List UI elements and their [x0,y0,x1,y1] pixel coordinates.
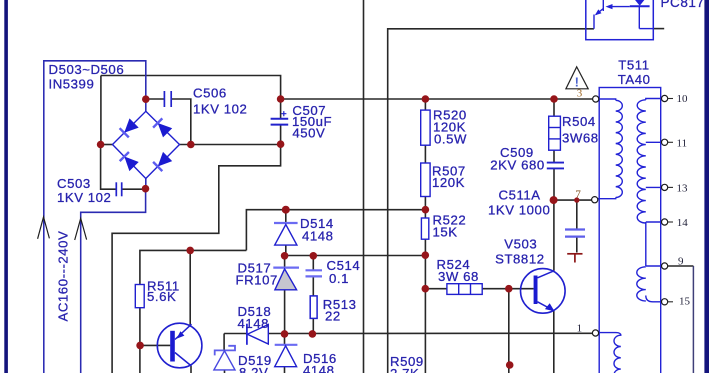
wire D517 top lead [284,256,286,268]
pin 9 circle [662,263,668,269]
C511A red end mark [567,254,582,263]
label D503~D506 IN5399 [49,62,125,92]
svg-text:4148: 4148 [302,228,334,243]
wire D519 bottom lead [224,370,226,373]
wire C507 bottom lead [280,125,282,144]
pin stubs right [668,99,673,302]
junction Q1 emitter node [186,247,194,255]
wire R504 top lead [553,99,555,116]
svg-text:V503: V503 [504,236,537,251]
wire node to T511 pin7 [554,199,592,201]
label R507 120K [432,163,466,190]
wire D516 bottom lead [284,367,286,373]
transistor V503 [521,269,566,314]
resistor R520 [421,110,430,145]
wire R524 right lead to V503 base [482,288,533,290]
wire PC817 LED output stub [653,28,664,30]
transistor Q1 [157,323,202,368]
wire R524 left lead [425,288,447,290]
label D516 4148 [303,351,337,373]
svg-text:3W68: 3W68 [562,131,599,146]
wire R522 bottom vertical to bottom edge [424,239,426,373]
label R509 2.7K [390,354,424,373]
bridge diode top-right [153,118,172,137]
svg-text:1KV 1000: 1KV 1000 [488,203,550,218]
wire V503 collector vertical [553,200,555,271]
svg-text:C503: C503 [57,176,91,191]
wire long vertical V1 [363,0,365,373]
svg-text:2KV 680: 2KV 680 [490,157,544,172]
WIRES-BLUE [44,61,146,373]
wire C507 top lead [280,99,282,119]
label R522 15K [433,212,467,239]
resistor R504 3-cell vertical [549,116,561,150]
resistor R522 [421,218,428,239]
svg-text:TA40: TA40 [618,72,651,87]
wire C509 bottom lead [553,169,555,201]
T511 winding 9-15 [637,266,662,302]
PC817 phototransistor [594,0,630,29]
svg-text:PC817: PC817 [661,0,705,10]
T511 link 14 to 9 [645,222,647,266]
wire R520-R507 link [424,145,426,163]
resistor R507 [421,163,430,197]
label C511A 1KV 1000 [488,187,550,217]
junction D516 top [281,330,289,338]
pin 3 circle T511 primary top [593,96,599,102]
wire R511 bottom to bottom edge [139,308,141,373]
optocoupler PC817 box [586,0,654,40]
svg-text:D503~D506: D503~D506 [49,62,125,77]
label T511 TA40 [618,58,651,87]
wire V503 emitter vertical to bottom edge [553,310,555,373]
label D514 4148 [300,216,334,244]
wire step from C507 bottom down-left to bottom edge [112,144,281,373]
PC817 LED [630,0,654,29]
pin 13 circle [662,184,668,190]
capacitor C509 [547,163,564,169]
diode D516 [275,345,298,367]
svg-text:0.1: 0.1 [329,271,349,286]
svg-text:1: 1 [577,322,583,334]
wire Q1 collector to bottom edge [190,366,192,373]
capacitor C507 electrolytic [271,111,289,125]
label C514 0.1 [327,258,361,286]
right border bar [704,0,709,373]
junction R520 top [422,95,430,103]
junction R524 left [422,285,430,293]
svg-text:3: 3 [577,88,583,100]
junction bottom node V4 [506,361,514,369]
svg-text:AC160---240V: AC160---240V [56,231,71,322]
svg-text:5.6K: 5.6K [147,289,176,304]
svg-text:2.7K: 2.7K [390,366,419,373]
capacitor C511A [565,230,585,237]
wire AC right leg to bridge bottom vertex [81,189,146,373]
wire C511A bottom lead [576,237,578,253]
T511 primary winding top [598,99,623,199]
wire C503 to bridge bottom vertex [122,188,146,190]
wire C506 right lead to bridge right vertex [171,99,191,145]
wire long vertical V2 to PC817 [388,29,594,373]
wire R513 bottom lead [312,318,314,333]
wire D514 bottom lead [285,245,287,255]
diode D517 FR107 [273,268,299,290]
label R513 22 [323,297,357,324]
resistor R511 [135,285,144,308]
svg-text:4148: 4148 [303,363,335,373]
AC arrowhead right [75,218,87,240]
wire Q1 emitter vertical [189,250,191,325]
wire AC leg to bridge left vertex [100,76,102,145]
svg-text:8.2V: 8.2V [239,365,268,373]
svg-text:14: 14 [677,217,689,229]
wire bottom rail left part to D518 [224,333,247,335]
junction C509-V503 node [550,196,558,204]
junction R513 bottom [309,330,317,338]
capacitor C506 [164,91,171,107]
wire main HV rail y=99 [281,98,593,100]
resistor R513 [310,296,317,319]
svg-text:T511: T511 [618,58,649,73]
wire top rail from bridge to C507 [101,76,281,100]
junction D514-D517 node [281,252,289,260]
warning triangle 3 [566,67,588,100]
wire pin9 to right and down [668,265,694,267]
svg-text:3W 68: 3W 68 [438,269,479,284]
label R520 120K 0.5W [433,108,467,147]
capacitor C514 [306,270,323,276]
wire bridge bottom stub [145,179,147,189]
label C506 1KV 102 [193,86,247,117]
svg-text:0.5W: 0.5W [434,132,467,147]
pin 7 circle [592,197,598,203]
capacitor C503 [116,182,121,196]
svg-text:10: 10 [677,93,689,105]
bridge diode bottom-right [153,152,172,171]
wire D516 top lead [284,334,286,345]
diode D518 [247,324,268,345]
wire D519 top lead [223,334,225,351]
wire AC left leg with D503 label detour [44,61,146,373]
junction R522 bottom [422,251,430,259]
resistor R524 3-cell [447,284,482,295]
junction D514 top [282,206,290,214]
svg-text:IN5399: IN5399 [49,77,95,92]
wire rail y=255.5 C514/R522 [285,255,426,257]
svg-text:15: 15 [679,296,691,308]
svg-text:ST8812: ST8812 [495,252,544,267]
wire bridge top stub [145,99,147,111]
label D519 8.2V [238,353,272,373]
wire bridge right vertex to C507 bottom [180,144,281,146]
svg-text:C511A: C511A [499,187,541,202]
wire bridge left vertex down to C503 [101,145,117,190]
zener D519 [214,346,235,370]
wire V503 base node vertical V4 [508,289,510,373]
junction bridge left node [97,141,105,149]
svg-text:1KV 102: 1KV 102 [193,101,247,116]
label C503 1KV 102 [57,176,111,205]
junction R507-R522 node [422,206,430,214]
label D518 4148 [238,304,272,331]
label C509 2KV 680 [490,145,544,172]
junction bridge top node [142,95,150,103]
wire R507-R522 link [424,197,426,219]
junction C514 top [310,252,318,260]
pin 11 circle [662,139,668,145]
svg-text:4148: 4148 [238,316,270,331]
svg-text:120K: 120K [432,175,465,190]
junction C507 bottom [277,140,285,148]
label D517 FR107 [236,261,278,288]
junction Q1 base node [136,342,144,350]
wire bottom rail D518 to T511 pin1 [268,332,592,334]
bridge diode top-left [120,118,139,137]
svg-text:15K: 15K [433,224,458,239]
T511 secondary winding 10-14 [637,99,661,223]
svg-text:1KV 102: 1KV 102 [57,190,111,205]
pin 14 circle [662,219,668,225]
wire C514-R513 lead [312,277,314,296]
junction bridge bottom node [142,185,150,193]
wire bridge left stub [101,144,113,146]
bridge diode bottom-left [120,152,139,171]
wire R520 top lead [424,99,426,110]
svg-text:13: 13 [677,183,689,195]
label R504 3W68 [562,114,599,146]
left border bar [4,0,8,373]
wire D514 top lead [285,210,287,223]
pin 10 circle [662,95,668,101]
label R524 3W 68 [437,257,479,284]
wire rail y=250.4 R511 top [140,250,247,284]
junction bridge right node [187,141,195,149]
wire C514 top lead [312,256,314,271]
label V503 ST8812 [495,236,544,266]
junction C507 top [277,95,285,103]
svg-text:C506: C506 [193,86,227,101]
junction C511A tap [574,197,579,202]
bridge rectifier D503~D506 diamond [113,111,180,178]
diode D514 [274,223,298,245]
pin 15 circle [662,299,668,305]
svg-text:22: 22 [325,308,341,323]
transformer T511 box [599,88,661,373]
wire R504-C509 link [553,150,555,162]
junction R524 right [505,285,513,293]
svg-text:R504: R504 [562,114,596,129]
svg-text:450V: 450V [292,125,325,140]
AC arrowhead left [38,217,50,239]
wire D517 bottom lead [284,290,286,334]
wire C506 left lead [146,98,164,100]
pin 1 circle [592,330,598,336]
wire C511A top lead [576,200,578,229]
svg-text:FR107: FR107 [236,273,278,288]
T511 primary lower winding pin1 [599,333,621,373]
junction R504 top [550,95,558,103]
wire Q1 base [140,344,170,346]
label C507 150uF 450V [292,103,332,140]
wire pin9 vertical down right side [692,266,694,373]
label R511 5.6K [147,278,180,304]
svg-text:11: 11 [677,138,688,150]
wire rail y=209.7 D514 to R507/R522 junction [246,210,425,251]
svg-text:9: 9 [678,256,684,268]
